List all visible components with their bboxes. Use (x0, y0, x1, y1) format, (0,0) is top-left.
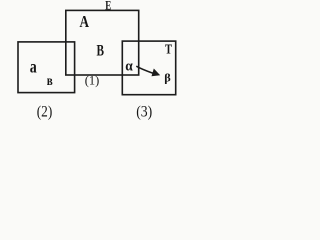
svg-text:α: α (125, 59, 133, 75)
svg-text:(2): (2) (37, 103, 53, 121)
svg-text:A: A (79, 12, 89, 31)
svg-text:β: β (164, 73, 171, 85)
svg-text:в: в (47, 73, 53, 88)
svg-text:T: T (165, 42, 172, 58)
svg-text:E: E (105, 0, 111, 12)
svg-text:(3): (3) (136, 103, 152, 121)
svg-text:(1): (1) (85, 73, 100, 87)
svg-text:B: B (96, 42, 104, 59)
svg-text:a: a (30, 56, 37, 76)
